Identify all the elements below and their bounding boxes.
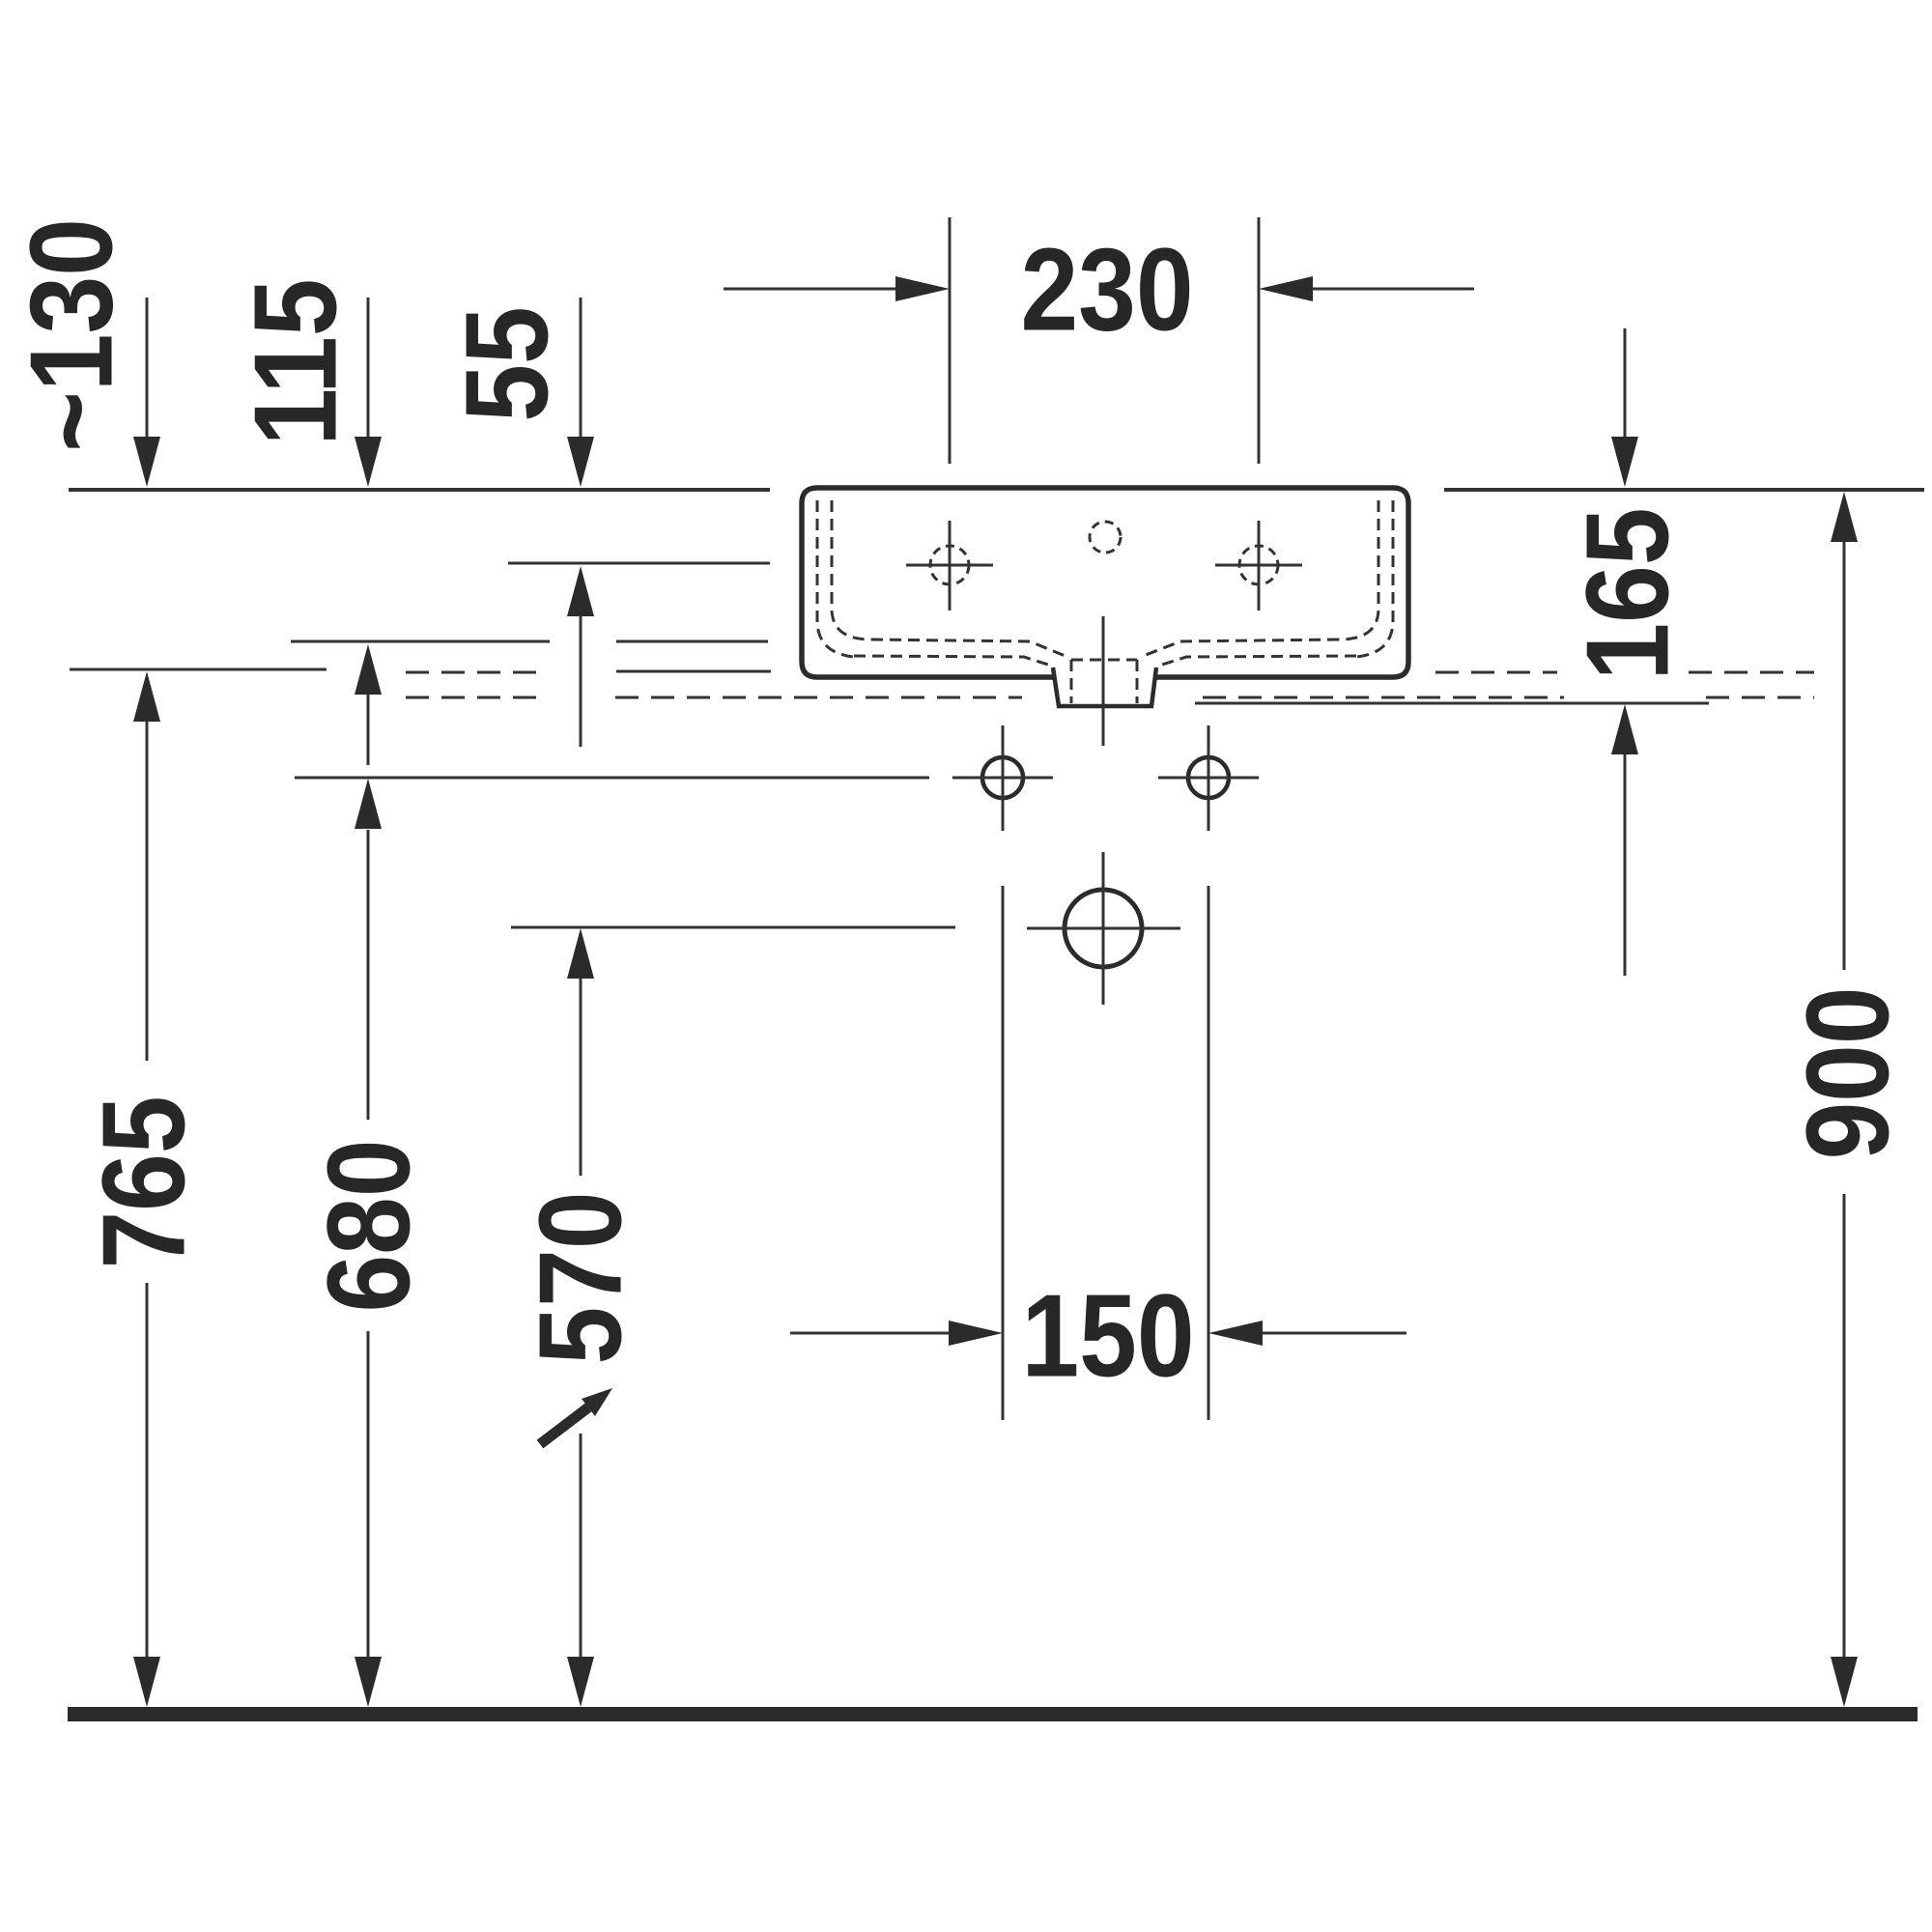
svg-text:680: 680 [303, 1139, 435, 1312]
svg-text:765: 765 [78, 1095, 210, 1268]
svg-text:570: 570 [515, 1191, 646, 1364]
svg-text:165: 165 [1562, 507, 1693, 680]
svg-text:115: 115 [230, 278, 361, 445]
svg-text:~130: ~130 [6, 218, 137, 452]
svg-text:230: 230 [1020, 224, 1193, 355]
svg-text:150: 150 [1021, 1270, 1194, 1402]
svg-text:900: 900 [1782, 986, 1914, 1159]
svg-text:55: 55 [441, 306, 573, 421]
